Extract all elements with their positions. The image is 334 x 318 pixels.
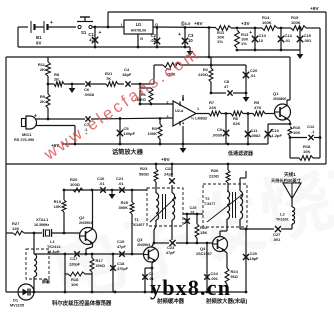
- wire R12 to R13 node: [231, 27, 262, 30]
- svg-text:屏蔽: 屏蔽: [42, 278, 51, 284]
- svg-text:科尔皮兹压控晶体振荡器: 科尔皮兹压控晶体振荡器: [52, 299, 112, 307]
- caption rf amplifier: [205, 297, 248, 305]
- svg-text:47: 47: [89, 38, 94, 43]
- trimmer capacitor C10 1.2pF: [264, 124, 283, 144]
- wire Q3 emitter: [151, 261, 155, 293]
- svg-text:.0068: .0068: [84, 92, 95, 97]
- svg-text:T-5477: T-5477: [204, 202, 215, 206]
- svg-text:TK1601: TK1601: [276, 218, 289, 222]
- svg-text:+: +: [178, 32, 181, 38]
- resistor R18 10K: [290, 144, 320, 160]
- ground bus top left: [18, 46, 190, 49]
- svg-text:10K: 10K: [71, 282, 78, 287]
- wire Q3 collector: [152, 243, 155, 247]
- resistor R11 2K: [38, 57, 51, 84]
- resistor R20 100ohm: [70, 177, 83, 192]
- svg-text:2N3866: 2N3866: [273, 97, 286, 101]
- microphone MIC1 RS 276-096: [14, 114, 37, 143]
- wire R5 to Q1 base: [265, 113, 275, 115]
- wire mic line to pin3: [91, 117, 173, 120]
- wire to C6: [64, 83, 85, 86]
- svg-text:2K: 2K: [54, 77, 59, 82]
- svg-text:1: 1: [197, 107, 199, 111]
- label +6V mic box: [51, 143, 60, 148]
- svg-text:1%: 1%: [217, 39, 223, 44]
- svg-text:10: 10: [259, 38, 264, 43]
- wire R15 to inner right rail: [299, 27, 320, 30]
- svg-text:16.5MHz: 16.5MHz: [34, 223, 49, 227]
- svg-text:100K: 100K: [262, 20, 272, 25]
- ground symbol osc line: [109, 189, 116, 199]
- wire Q3 base line: [34, 253, 144, 256]
- capacitor C15 .001: [297, 28, 312, 50]
- wire mic hot line: [36, 118, 85, 121]
- svg-text:.01: .01: [285, 38, 291, 43]
- svg-text:R24: R24: [231, 269, 239, 274]
- wire C6 to R21: [89, 83, 106, 85]
- svg-text:100K: 100K: [147, 131, 157, 136]
- svg-text:XTAL1: XTAL1: [36, 217, 49, 222]
- resistor R24 56ohm: [225, 268, 239, 292]
- svg-text:62K: 62K: [233, 121, 240, 126]
- svg-text:T2: T2: [205, 197, 209, 201]
- inductor L1 13.3uH: [26, 239, 61, 292]
- svg-text:3: 3: [166, 115, 168, 119]
- wire C23 line: [154, 242, 169, 244]
- capacitor C17 120pF: [69, 251, 81, 266]
- svg-text:AN78L06: AN78L06: [131, 29, 146, 33]
- caption low pass filter: [227, 150, 254, 157]
- caption rf buffer: [156, 297, 185, 305]
- wire R21 to C4: [118, 83, 124, 85]
- resistor R25 390K: [118, 190, 134, 254]
- svg-text:ybx8.cn: ybx8.cn: [150, 275, 231, 300]
- wire C8 to C20 node: [233, 92, 247, 95]
- wire opamp vplus stub: [182, 95, 184, 101]
- label shield: [42, 278, 51, 284]
- wire +9V right rail: [325, 12, 327, 164]
- svg-text:C1: C1: [88, 32, 94, 37]
- svg-text:220Ω: 220Ω: [209, 174, 220, 179]
- transistor Q4 2SC1967: [196, 237, 228, 257]
- wire Q1 collector: [287, 57, 290, 106]
- svg-text:C25: C25: [190, 206, 197, 210]
- svg-text:+6V: +6V: [194, 21, 203, 27]
- capacitor C14 .01: [278, 28, 293, 50]
- ground symbol opamp: [180, 144, 187, 153]
- svg-text:2K: 2K: [40, 67, 45, 72]
- svg-text:R23: R23: [140, 166, 148, 171]
- capacitor C6 .0068: [84, 81, 95, 97]
- svg-text:390K: 390K: [118, 205, 128, 210]
- svg-text:C23: C23: [167, 245, 175, 250]
- svg-text:话筒放大器: 话筒放大器: [112, 148, 144, 156]
- wire +9V riser: [107, 12, 109, 27]
- caption mic amplifier: [112, 148, 144, 156]
- capacitor C8 47: [224, 79, 233, 96]
- feedback loop R1: [140, 88, 153, 103]
- capacitor C21 .01: [116, 176, 125, 193]
- ground line mic box: [62, 143, 268, 146]
- wire Q1 emitter: [287, 119, 291, 126]
- wire osc top line: [63, 189, 147, 192]
- wire emitter to C10: [268, 123, 290, 125]
- svg-text:C25: C25: [250, 251, 258, 256]
- capacitor C16 .01: [97, 176, 106, 193]
- svg-text:R17: R17: [96, 258, 104, 263]
- resistor R15 100K: [291, 15, 306, 30]
- wire C23 to Q4 base: [176, 242, 213, 245]
- label +9V mid: [161, 157, 170, 163]
- svg-text:.01: .01: [99, 181, 105, 186]
- resistor R26 220ohm: [209, 164, 230, 183]
- svg-text:+3V: +3V: [241, 21, 250, 27]
- svg-text:S1: S1: [81, 30, 87, 35]
- wire L1 top line: [33, 233, 35, 254]
- capacitor C21b emitter bypass: [142, 268, 154, 292]
- capacitor C1 47: [88, 26, 101, 47]
- svg-text:2N3904: 2N3904: [79, 221, 93, 225]
- resistor R23 580ohm: [139, 164, 158, 188]
- svg-text:.0039: .0039: [212, 133, 223, 138]
- watermark elecfans: [40, 44, 203, 164]
- wire S1 to U1 input: [92, 26, 124, 29]
- svg-text:220Ω: 220Ω: [198, 72, 209, 77]
- capacitor C11 .0082: [245, 114, 261, 145]
- op-amp U2-a LM833: [166, 97, 207, 126]
- resistor R2 220ohm: [198, 57, 213, 93]
- wire inner right rail: [319, 28, 321, 158]
- svg-text:C27: C27: [273, 232, 281, 237]
- +9V mid rail: [6, 163, 326, 166]
- svg-text:I: I: [121, 22, 122, 27]
- resistor R16 10K: [288, 125, 301, 136]
- label antenna: [271, 171, 302, 184]
- wire opamp output: [196, 113, 209, 115]
- svg-text:T1: T1: [134, 217, 139, 222]
- resistor R6 62K: [231, 111, 243, 126]
- wire mic return: [36, 126, 75, 145]
- crystal XTAL1 16.5MHz line: [6, 232, 65, 235]
- wire T1 sec bottom: [171, 220, 173, 240]
- resistor R27 12K: [12, 221, 24, 235]
- svg-text:10K: 10K: [293, 130, 300, 135]
- resistor R18b 10K: [65, 254, 92, 292]
- svg-text:MIC1: MIC1: [22, 132, 32, 137]
- svg-text:天线1: 天线1: [284, 171, 296, 178]
- capacitor C7 .1: [84, 116, 91, 132]
- resistor R12 10K 1%: [216, 26, 231, 44]
- resistor R13 10K 1%: [235, 30, 250, 48]
- wire R27 to crystal: [24, 232, 42, 234]
- transistor Q1 2N3866: [273, 91, 291, 120]
- svg-text:18pF: 18pF: [122, 72, 132, 77]
- wire R16 node: [289, 136, 292, 158]
- svg-text:10K: 10K: [303, 149, 310, 154]
- resistor R17 300ohm: [90, 254, 105, 292]
- svg-text:10: 10: [188, 38, 193, 43]
- transformer T1 TK1407: [131, 188, 183, 227]
- svg-text:100Ω: 100Ω: [70, 182, 81, 187]
- svg-text:+: +: [50, 20, 53, 26]
- wire R7 node: [221, 112, 231, 115]
- ground symbol C8 node: [243, 93, 250, 102]
- wire C27 to L2: [281, 228, 292, 230]
- capacitor C27 .001: [273, 226, 281, 242]
- ground bus bottom: [6, 291, 246, 294]
- capacitor C12 .1: [290, 124, 321, 140]
- svg-text:U1: U1: [136, 22, 142, 27]
- svg-text:2SC1967: 2SC1967: [196, 252, 212, 256]
- capacitor C24 .001: [204, 242, 218, 292]
- wire R4 to R2 node: [180, 64, 246, 67]
- wire inter-transformer link: [183, 213, 203, 216]
- svg-text:.001: .001: [273, 238, 280, 242]
- svg-text:C9: C9: [217, 127, 223, 132]
- svg-text:10K: 10K: [54, 204, 61, 209]
- svg-text:.0082: .0082: [251, 133, 262, 138]
- svg-text:见6-5: 见6-5: [181, 21, 190, 26]
- wire T2 pri bottom to Q4 collector: [220, 219, 227, 237]
- svg-text:47pF: 47pF: [166, 251, 176, 255]
- svg-text:1.2pF: 1.2pF: [272, 133, 283, 138]
- wire T1 pri bottom to Q3 collector: [153, 220, 156, 244]
- svg-text:100pF: 100pF: [124, 131, 136, 136]
- capacitor C9 .0039: [212, 114, 229, 145]
- svg-text:300Ω: 300Ω: [96, 264, 105, 268]
- wire U1 ground pin G: [138, 34, 143, 47]
- wire Q2 collector: [92, 190, 94, 230]
- svg-text:Q1: Q1: [273, 91, 279, 96]
- caption colpitts oscillator: [52, 299, 112, 307]
- resistor R19 10K: [54, 190, 66, 233]
- wire T2 sec bottom: [240, 219, 247, 230]
- svg-text:18pF: 18pF: [250, 257, 260, 261]
- label +9V top right: [310, 6, 319, 12]
- svg-text:B1: B1: [36, 35, 42, 40]
- resistor R5 47K: [253, 100, 265, 116]
- svg-text:TK2414: TK2414: [47, 245, 61, 249]
- crystal XTAL1: [34, 217, 52, 237]
- svg-text:MV2105: MV2105: [10, 304, 24, 308]
- +6V rail: [6, 56, 290, 59]
- svg-text:1%: 1%: [241, 41, 247, 46]
- svg-text:56Ω: 56Ω: [231, 275, 238, 279]
- svg-text:+: +: [249, 30, 252, 36]
- svg-text:.01: .01: [150, 38, 156, 43]
- capacitor C19 47pF: [117, 239, 127, 257]
- resistor R9 2K: [40, 84, 50, 119]
- svg-text:.01: .01: [190, 211, 195, 215]
- svg-text:7K: 7K: [106, 76, 111, 81]
- capacitor C25 18pF: [243, 229, 259, 293]
- wire node to C8: [210, 92, 226, 95]
- wire pin2 line: [139, 103, 173, 106]
- resistor R22 15K: [195, 214, 208, 243]
- svg-text:24pF: 24pF: [164, 172, 174, 177]
- svg-text:C17: C17: [70, 256, 78, 261]
- svg-text:2N3904: 2N3904: [137, 243, 151, 247]
- transistor Q2 2N3904: [79, 215, 97, 245]
- transformer T2 T-5477: [203, 183, 247, 227]
- svg-text:Q2: Q2: [79, 215, 85, 220]
- faint ghost watermark: [42, 139, 334, 315]
- transistor Q3 2N3904: [137, 237, 159, 262]
- varactor D1 MV2105: [10, 284, 34, 308]
- wire opamp vminus to ground: [182, 126, 185, 145]
- resistor R4 150K: [154, 63, 180, 77]
- svg-text:D1: D1: [13, 298, 19, 303]
- svg-text:天线长约30英寸: 天线长约30英寸: [271, 177, 302, 184]
- svg-text:120pF: 120pF: [69, 263, 81, 267]
- resistor R8 2K: [54, 72, 64, 86]
- svg-text:2: 2: [166, 101, 168, 105]
- wire crystal to Q2 base: [52, 232, 81, 234]
- label +3V: [241, 21, 250, 27]
- wire Q2 emitter: [85, 243, 93, 256]
- svg-text:低通滤波器: 低通滤波器: [227, 150, 254, 157]
- svg-text:+: +: [99, 30, 102, 36]
- label R1 1MEG: [135, 92, 147, 102]
- wire U1 output +6V line: [153, 26, 216, 29]
- svg-text:.01: .01: [118, 181, 124, 186]
- wire inv input riser: [139, 84, 141, 104]
- wire battery to switch: [48, 26, 77, 28]
- capacitor C20 .01: [243, 65, 258, 93]
- svg-text:47: 47: [224, 84, 229, 89]
- svg-text:C22: C22: [165, 166, 173, 171]
- svg-text:2K: 2K: [40, 99, 45, 104]
- battery B1 9V: [31, 20, 53, 46]
- ground symbol mid: [69, 84, 76, 93]
- resistor R14 100K: [262, 15, 277, 30]
- svg-text:.001: .001: [304, 38, 313, 43]
- svg-text:470pF: 470pF: [117, 267, 129, 271]
- wire C4 node: [131, 83, 154, 86]
- svg-text:12K: 12K: [12, 226, 19, 231]
- resistor R3 100K: [147, 119, 162, 145]
- svg-text:47pF: 47pF: [117, 245, 127, 249]
- capacitor C5 100pF: [117, 119, 136, 145]
- svg-text:+9V: +9V: [161, 157, 170, 163]
- svg-text:RS 276-096: RS 276-096: [14, 138, 34, 142]
- svg-text:15K: 15K: [200, 230, 207, 235]
- svg-text:R26: R26: [211, 168, 219, 173]
- capacitor C4 18pF: [122, 67, 132, 87]
- svg-text:½ LM833: ½ LM833: [191, 117, 207, 121]
- wire R6 node: [243, 112, 253, 115]
- wire +6V tap to rail: [208, 26, 211, 57]
- capacitor C13 10: [249, 27, 267, 50]
- bias ground bus: [236, 49, 300, 52]
- svg-text:47K: 47K: [254, 105, 261, 110]
- svg-text:TK1407: TK1407: [131, 223, 145, 227]
- svg-text:L1: L1: [50, 239, 55, 244]
- svg-text:U2-a: U2-a: [175, 109, 184, 113]
- resistor R21 7K: [105, 71, 118, 86]
- svg-text:22K: 22K: [209, 105, 216, 110]
- label +6V: [194, 21, 203, 27]
- svg-text:.01: .01: [250, 73, 256, 78]
- wire battery loop top: [18, 27, 28, 47]
- svg-text:L2: L2: [280, 212, 285, 217]
- switch S1 (pushbutton): [77, 17, 93, 35]
- svg-text:C19: C19: [117, 239, 125, 244]
- regulator U1 AN78L06: [121, 20, 158, 34]
- capacitor C2 .01: [150, 26, 160, 47]
- svg-text:100K: 100K: [291, 20, 301, 25]
- inductor L2: [276, 207, 295, 229]
- label note: [181, 21, 190, 26]
- svg-text:9V: 9V: [36, 41, 41, 46]
- wire +9V top rail: [108, 11, 326, 13]
- wire R4 riser: [153, 65, 155, 84]
- resistor R7 22K: [209, 100, 221, 116]
- node line y84: [47, 83, 54, 86]
- wire T2 sec top: [240, 171, 246, 184]
- capacitor C22 24pF: [164, 164, 175, 188]
- watermark ybx8.cn: [150, 275, 231, 300]
- svg-text:Q3: Q3: [137, 237, 143, 242]
- capacitor C23 47pF: [166, 240, 176, 255]
- capacitor C18 470pF: [110, 254, 128, 292]
- capacitor C3 10: [178, 26, 194, 47]
- svg-text:Q4: Q4: [200, 246, 206, 251]
- ground symbol below C3: [187, 47, 194, 56]
- capacitor C28 .01: [184, 206, 196, 243]
- svg-text:580Ω: 580Ω: [139, 172, 150, 177]
- svg-text:C18: C18: [117, 261, 125, 266]
- svg-text:+9V: +9V: [310, 6, 319, 12]
- wire Q4 emitter: [224, 251, 227, 269]
- ground symbol bias bus: [297, 50, 304, 59]
- left rail: [5, 57, 7, 292]
- wire antenna line: [246, 228, 274, 230]
- svg-text:G: G: [140, 36, 143, 41]
- antenna ANT1: [283, 183, 301, 207]
- wire R14-R15: [277, 27, 291, 30]
